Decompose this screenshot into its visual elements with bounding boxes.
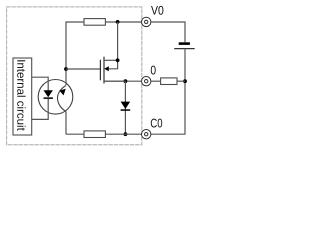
node source junction <box>124 79 128 83</box>
resistor R-top <box>84 19 105 26</box>
wire drain vertical <box>117 22 119 60</box>
wire top-left rail <box>66 22 84 85</box>
resistor R-bottom <box>84 131 105 138</box>
wire top to V0 <box>105 21 141 23</box>
wire 0-row right <box>177 80 185 82</box>
wire source row <box>104 80 142 82</box>
node right rail junction <box>183 79 187 83</box>
label C0 <box>151 119 162 128</box>
resistor R-right <box>161 78 177 85</box>
node gate junction <box>64 67 68 71</box>
LED diode <box>32 77 53 119</box>
current-source arrow in circle <box>57 86 66 112</box>
wire V0 to battery <box>151 22 185 42</box>
wire diode branch <box>124 81 126 134</box>
internal circuit box <box>13 58 32 135</box>
wire right rail <box>151 49 185 135</box>
wire 0 terminal to resistor <box>151 80 161 82</box>
wire circle bottom to bottom row <box>65 112 67 135</box>
dashed boundary frame <box>7 7 142 145</box>
node bottom junction <box>124 132 128 136</box>
wire bottom to C0 <box>105 133 141 135</box>
label 0 <box>151 66 156 75</box>
battery <box>174 42 195 48</box>
terminal C0 <box>142 130 151 139</box>
transistor Q1 MOSFET <box>100 57 125 84</box>
diode D1 <box>121 102 131 111</box>
wire gate lead <box>66 68 100 70</box>
LED circle <box>38 80 73 115</box>
wire bottom row <box>66 133 84 135</box>
terminal V0 <box>142 17 151 26</box>
terminal 0 <box>142 77 151 86</box>
node top junction <box>116 20 120 24</box>
label V0 <box>151 6 163 15</box>
